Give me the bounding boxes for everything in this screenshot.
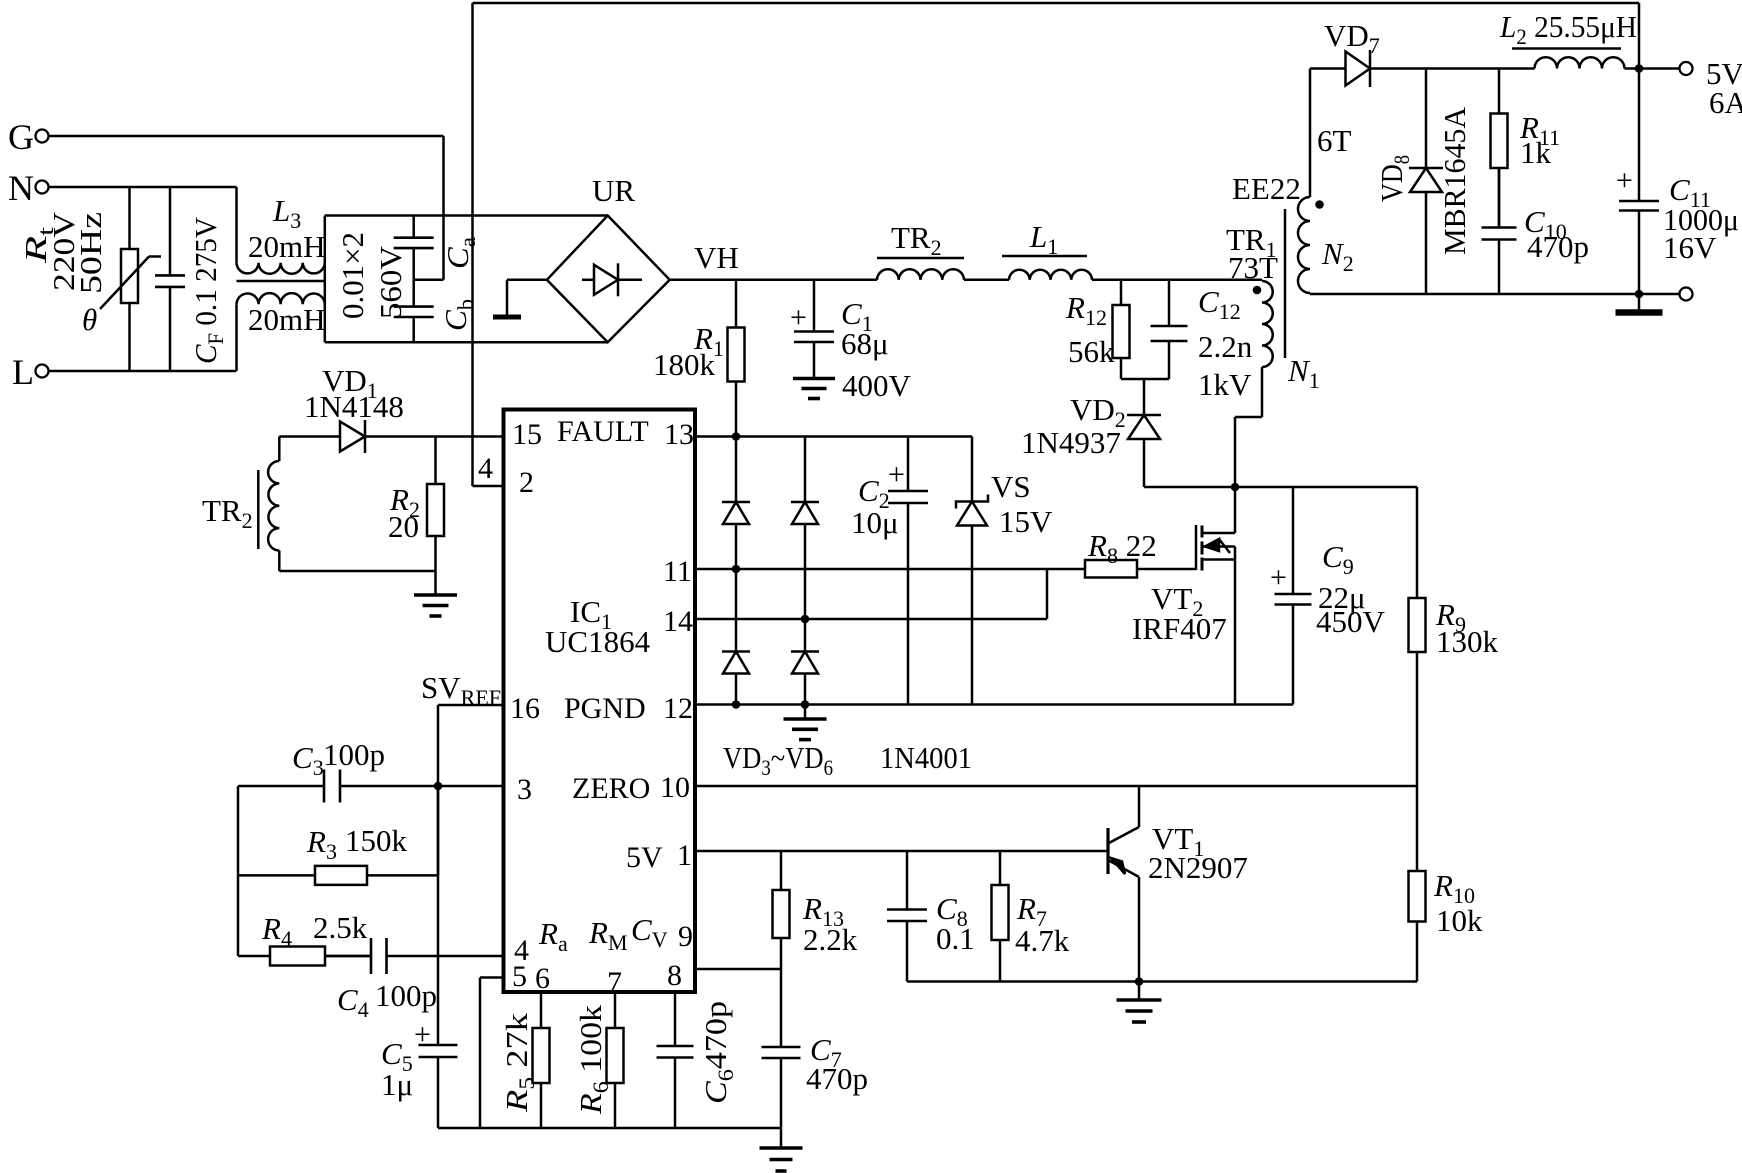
svg-text:68μ: 68μ	[841, 326, 889, 361]
svg-text:50Hz: 50Hz	[73, 212, 108, 294]
svg-text:150k: 150k	[345, 823, 408, 858]
svg-text:EE22: EE22	[1232, 171, 1301, 206]
svg-text:VD3~VD6: VD3~VD6	[723, 740, 833, 780]
svg-text:L: L	[12, 352, 34, 392]
svg-text:56k: 56k	[1068, 334, 1115, 369]
svg-text:5V: 5V	[626, 841, 663, 874]
svg-text:VS: VS	[991, 469, 1031, 504]
svg-text:MBR1645A: MBR1645A	[1437, 106, 1472, 255]
svg-text:2: 2	[519, 466, 534, 499]
svg-text:UC1864: UC1864	[545, 624, 651, 659]
svg-text:130k: 130k	[1436, 624, 1499, 659]
svg-text:1N4001: 1N4001	[880, 740, 972, 775]
svg-text:20mH: 20mH	[248, 302, 326, 337]
svg-text:R8 22: R8 22	[1087, 528, 1157, 568]
svg-text:FAULT: FAULT	[557, 415, 649, 448]
svg-text:+: +	[888, 458, 905, 491]
svg-text:1N4937: 1N4937	[1021, 425, 1121, 460]
svg-text:11: 11	[663, 555, 692, 588]
svg-text:180k: 180k	[653, 347, 716, 382]
svg-text:13: 13	[664, 418, 694, 451]
svg-text:470p: 470p	[806, 1061, 868, 1096]
svg-text:10μ: 10μ	[851, 505, 899, 540]
svg-text:450V: 450V	[1316, 604, 1386, 639]
svg-text:4: 4	[478, 452, 493, 485]
svg-text:2N2907: 2N2907	[1148, 850, 1248, 885]
svg-text:100p: 100p	[323, 737, 385, 772]
svg-text:1N4148: 1N4148	[304, 389, 404, 424]
svg-text:10: 10	[660, 771, 690, 804]
svg-text:+: +	[790, 301, 807, 334]
svg-text:10k: 10k	[1436, 903, 1483, 938]
svg-text:θ: θ	[82, 302, 97, 337]
svg-text:0.01×2: 0.01×2	[335, 232, 370, 319]
svg-text:20: 20	[388, 509, 419, 544]
svg-text:6A: 6A	[1709, 85, 1742, 120]
svg-text:7: 7	[607, 966, 622, 999]
svg-text:470p: 470p	[1527, 229, 1589, 264]
svg-text:9: 9	[678, 920, 693, 953]
svg-text:14: 14	[663, 605, 693, 638]
svg-text:6: 6	[535, 962, 550, 995]
svg-text:12: 12	[663, 692, 693, 725]
svg-text:400V: 400V	[842, 368, 912, 403]
svg-text:73T: 73T	[1228, 250, 1278, 285]
svg-text:20mH: 20mH	[248, 229, 326, 264]
svg-text:N: N	[8, 168, 34, 208]
svg-text:8: 8	[667, 959, 682, 992]
svg-text:+: +	[1270, 561, 1287, 594]
svg-text:3: 3	[517, 773, 532, 806]
svg-text:+: +	[1616, 164, 1633, 197]
svg-text:2.2k: 2.2k	[803, 922, 858, 957]
svg-text:ZERO: ZERO	[572, 772, 650, 805]
svg-text:1μ: 1μ	[381, 1067, 413, 1102]
svg-text:PGND: PGND	[564, 692, 646, 725]
svg-text:1kV: 1kV	[1198, 367, 1252, 402]
svg-text:15V: 15V	[999, 504, 1053, 539]
svg-text:16V: 16V	[1663, 230, 1717, 265]
svg-text:100p: 100p	[375, 978, 437, 1013]
svg-text:1: 1	[677, 839, 692, 872]
svg-text:VH: VH	[694, 240, 739, 275]
svg-text:IRF407: IRF407	[1132, 611, 1227, 646]
svg-text:UR: UR	[592, 173, 635, 208]
svg-text:6T: 6T	[1317, 123, 1352, 158]
svg-text:4.7k: 4.7k	[1015, 923, 1070, 958]
svg-text:G: G	[8, 117, 34, 157]
svg-text:R5 27k: R5 27k	[499, 1012, 539, 1113]
svg-text:1k: 1k	[1520, 135, 1552, 170]
svg-text:0.1: 0.1	[936, 921, 975, 956]
svg-text:15: 15	[512, 418, 542, 451]
svg-text:5: 5	[512, 960, 527, 993]
svg-text:C6470p: C6470p	[698, 1001, 738, 1104]
svg-text:16: 16	[510, 692, 540, 725]
svg-text:R6 100k: R6 100k	[573, 1004, 613, 1115]
svg-text:2.2n: 2.2n	[1198, 329, 1253, 364]
svg-text:2.5k: 2.5k	[313, 910, 368, 945]
svg-text:560V: 560V	[373, 245, 408, 319]
svg-text:+: +	[414, 1018, 431, 1051]
